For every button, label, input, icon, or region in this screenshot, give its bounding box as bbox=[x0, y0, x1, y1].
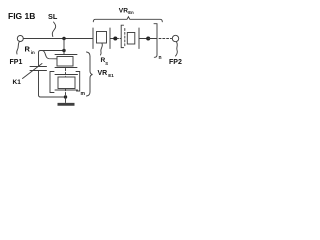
wire to right bracket bbox=[148, 38, 157, 40]
junction dot at ground node bbox=[64, 95, 67, 98]
wire from cell En to node bbox=[140, 38, 149, 40]
leader from FP2 terminal to FP2 label bbox=[176, 42, 178, 56]
ground stub bbox=[65, 97, 67, 103]
junction dot on branch wire bbox=[62, 49, 65, 52]
cell E1 left plate bbox=[92, 28, 94, 49]
cell m element box bbox=[58, 77, 75, 89]
svg-text:FP1: FP1 bbox=[10, 59, 23, 66]
wire from cell E1 to node bbox=[111, 38, 116, 40]
svg-text:n: n bbox=[159, 55, 162, 61]
bracket [ left of repeated cell n bbox=[121, 25, 123, 47]
leader from K1 label through capacitor bbox=[23, 64, 43, 79]
junction dot on SL at node of first branch bbox=[62, 37, 65, 40]
svg-text:FIG 1B: FIG 1B bbox=[8, 11, 35, 21]
cell m upper electrode line bbox=[55, 74, 78, 76]
input terminal FP1 circle bbox=[17, 36, 23, 42]
cell 1 upper electrode line bbox=[55, 54, 77, 56]
leader from FP1 terminal to FP1 label bbox=[17, 42, 20, 55]
junction dot bbox=[146, 37, 150, 41]
bracket [ left of repeated cell bbox=[50, 72, 54, 93]
capacitor K1 top plate bbox=[30, 66, 47, 68]
svg-text:VR: VR bbox=[119, 8, 128, 15]
brace } for group VRE1 bbox=[87, 52, 93, 96]
svg-text:R: R bbox=[25, 45, 31, 54]
svg-text:En: En bbox=[128, 10, 134, 15]
wire: s-curve into left side of cell box K bbox=[43, 51, 57, 59]
ground plate bar bbox=[58, 103, 75, 106]
svg-text:S: S bbox=[105, 61, 108, 66]
leader from cell E1 box to RS label bbox=[101, 44, 103, 56]
cell En box bbox=[127, 33, 135, 45]
svg-text:in: in bbox=[31, 50, 35, 55]
capacitor K1 bottom plate bbox=[30, 70, 47, 72]
top bracket over VREn group bbox=[93, 17, 162, 22]
wire: branch from capacitor up and right to node bbox=[39, 51, 64, 67]
dashed wire continuation bbox=[117, 38, 121, 40]
leader from SL to signal line wire bbox=[52, 22, 55, 37]
svg-text:E1: E1 bbox=[108, 73, 114, 78]
svg-text:K1: K1 bbox=[13, 79, 22, 86]
cell En right plate bbox=[138, 28, 140, 49]
output terminal FP2 circle bbox=[172, 35, 178, 41]
wire: from capacitor bottom down and right to ground node bbox=[39, 71, 65, 98]
wire: vertical drop from SL node to cell plate bbox=[63, 39, 65, 55]
bracket ] right of repeated cell n bbox=[154, 24, 157, 58]
cell 1 element box bbox=[57, 57, 73, 67]
cell E1 right plate bbox=[109, 28, 111, 49]
dashed wire to FP2 terminal bbox=[159, 38, 172, 40]
bracket ] right of repeated cell bbox=[76, 72, 80, 92]
svg-text:VR: VR bbox=[98, 70, 108, 77]
dashed repetition line through cell column bbox=[65, 69, 67, 97]
wire: main signal line SL horizontal bbox=[23, 38, 92, 40]
cell E1 box bbox=[97, 32, 107, 44]
svg-text:SL: SL bbox=[48, 12, 58, 21]
junction dot bbox=[113, 37, 117, 41]
svg-text:m: m bbox=[81, 91, 86, 97]
dashed repetition line vertical bbox=[124, 29, 126, 48]
cell m lower electrode line bbox=[55, 89, 78, 91]
svg-text:FP2: FP2 bbox=[169, 59, 182, 66]
cell 1 lower electrode line bbox=[55, 67, 77, 69]
